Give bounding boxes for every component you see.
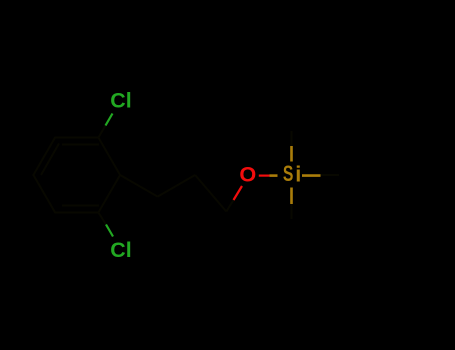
svg-text:i: i — [295, 162, 301, 187]
svg-text:Cl: Cl — [110, 89, 131, 113]
svg-text:Cl: Cl — [110, 238, 131, 262]
svg-text:O: O — [239, 161, 256, 186]
svg-text:S: S — [283, 161, 294, 186]
